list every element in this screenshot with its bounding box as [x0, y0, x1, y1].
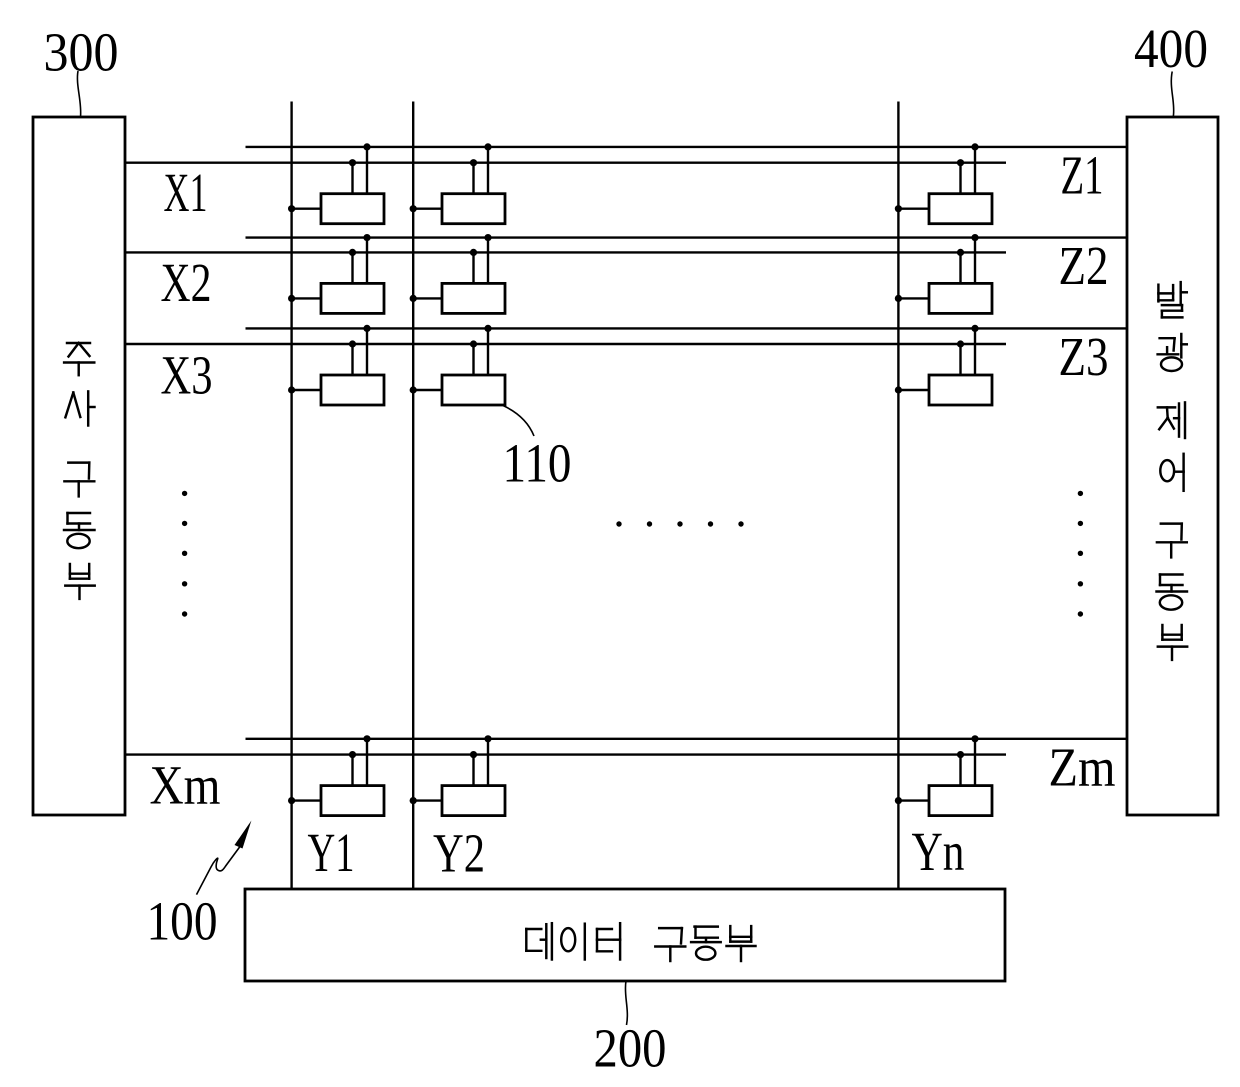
pixel cell 110 row 2 col 1: [288, 234, 384, 313]
label 300: [44, 22, 119, 83]
pixel cell 110 row m col 1: [288, 735, 384, 815]
emission control line Z3 (horizontal wire): [246, 327, 1128, 329]
svg-text:X1: X1: [164, 162, 208, 223]
label 400: [1134, 18, 1208, 79]
leader line for 300: [77, 71, 80, 117]
text deiteo gudongbu: [526, 923, 755, 961]
pixel cell 110 row 1 col n: [895, 143, 992, 223]
svg-text:Xm: Xm: [150, 754, 221, 815]
label Z2: [1059, 235, 1109, 296]
text juseo gudongbu: [64, 343, 95, 599]
scan line X1 (horizontal wire): [125, 161, 1006, 163]
scan line X2 (horizontal wire): [125, 251, 1006, 253]
pixel cell 110 row 2 col 2: [410, 234, 505, 313]
svg-text:110: 110: [503, 433, 572, 494]
label X3: [161, 344, 213, 405]
pixel cell 110 row 1 col 2: [410, 143, 505, 223]
label Xm: [150, 754, 221, 815]
label Y2: [433, 822, 485, 883]
leader line for 110: [503, 406, 534, 437]
emission control line Zm (horizontal wire): [246, 738, 1128, 740]
svg-text:Y2: Y2: [433, 822, 485, 883]
data driver block 200: [245, 889, 1005, 981]
svg-text:300: 300: [44, 22, 119, 83]
emission control line Z1 (horizontal wire): [246, 146, 1128, 148]
arrow pointer for 100: [197, 821, 252, 895]
emission control driver block 400: [1127, 117, 1218, 815]
label X2: [161, 252, 212, 313]
svg-text:X3: X3: [161, 344, 213, 405]
label 200: [594, 1018, 667, 1079]
data line Y2 (vertical wire): [412, 102, 414, 890]
label Z3: [1059, 326, 1109, 387]
svg-text:Zm: Zm: [1049, 736, 1116, 797]
label Zm: [1049, 736, 1116, 797]
svg-text:Z2: Z2: [1059, 235, 1109, 296]
label 100: [147, 891, 218, 952]
ellipsis dots between X3 and Xm (left): [182, 491, 187, 617]
data line Y1 (vertical wire): [290, 102, 292, 890]
label 110: [503, 433, 572, 494]
svg-text:200: 200: [594, 1018, 667, 1079]
leader line for 200: [625, 981, 627, 1025]
pixel cell 110 row 3 col 1: [288, 325, 384, 405]
pixel cell 110 row 2 col n: [895, 234, 992, 313]
svg-text:X2: X2: [161, 252, 212, 313]
label Yn: [912, 821, 965, 882]
label Y1: [308, 822, 355, 883]
emission control line Z2 (horizontal wire): [246, 236, 1128, 238]
pixel cell 110 row 1 col 1: [288, 143, 384, 223]
pixel cell 110 row 3 col 2: [410, 325, 505, 405]
pixel cell 110 row 3 col n: [895, 325, 992, 405]
svg-text:Y1: Y1: [308, 822, 355, 883]
svg-text:100: 100: [147, 891, 218, 952]
svg-text:Z1: Z1: [1061, 145, 1104, 206]
label Z1: [1061, 145, 1104, 206]
svg-text:400: 400: [1134, 18, 1208, 79]
svg-text:Z3: Z3: [1059, 326, 1109, 387]
scan line Xm (horizontal wire): [125, 753, 1006, 755]
ellipsis dots between Y2 and Yn (center): [616, 521, 743, 526]
data line Yn (vertical wire): [897, 102, 899, 890]
scan driver block 300: [33, 117, 125, 815]
pixel cell 110 row m col 2: [410, 735, 505, 815]
leader line for 400: [1171, 72, 1173, 117]
pixel cell 110 row m col n: [895, 735, 992, 815]
scan line X3 (horizontal wire): [125, 343, 1006, 345]
svg-text:Yn: Yn: [912, 821, 965, 882]
text balgwang jeeo gudongbu: [1157, 282, 1188, 660]
label X1: [164, 162, 208, 223]
ellipsis dots between Z3 and Zm (right): [1078, 491, 1083, 617]
